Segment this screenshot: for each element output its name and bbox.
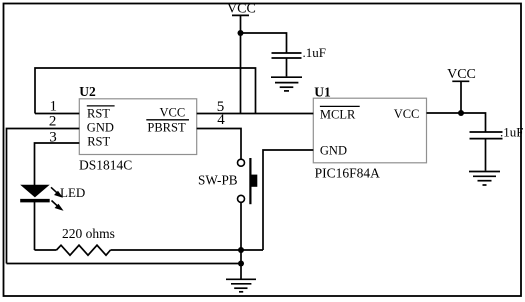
svg-text:220 ohms: 220 ohms xyxy=(62,226,115,241)
svg-text:MCLR: MCLR xyxy=(320,107,356,121)
svg-text:PBRST: PBRST xyxy=(147,121,186,135)
svg-text:VCC: VCC xyxy=(227,2,256,17)
svg-text:1: 1 xyxy=(49,99,57,115)
svg-text:RST: RST xyxy=(87,107,110,121)
svg-text:.1uF: .1uF xyxy=(500,125,523,140)
svg-text:PIC16F84A: PIC16F84A xyxy=(315,165,381,180)
svg-text:4: 4 xyxy=(217,112,225,128)
svg-text:VCC: VCC xyxy=(447,67,476,82)
svg-text:LED: LED xyxy=(60,185,85,200)
svg-text:.1uF: .1uF xyxy=(303,45,326,60)
svg-text:U1: U1 xyxy=(314,84,331,99)
svg-text:3: 3 xyxy=(49,130,57,146)
svg-text:GND: GND xyxy=(320,143,347,157)
svg-text:DS1814C: DS1814C xyxy=(79,158,132,173)
svg-text:VCC: VCC xyxy=(160,106,186,120)
svg-text:VCC: VCC xyxy=(394,107,420,121)
svg-text:U2: U2 xyxy=(79,84,96,99)
svg-text:RST: RST xyxy=(87,135,110,149)
svg-text:GND: GND xyxy=(87,120,114,134)
svg-text:SW-PB: SW-PB xyxy=(198,173,238,188)
svg-text:2: 2 xyxy=(49,114,57,130)
